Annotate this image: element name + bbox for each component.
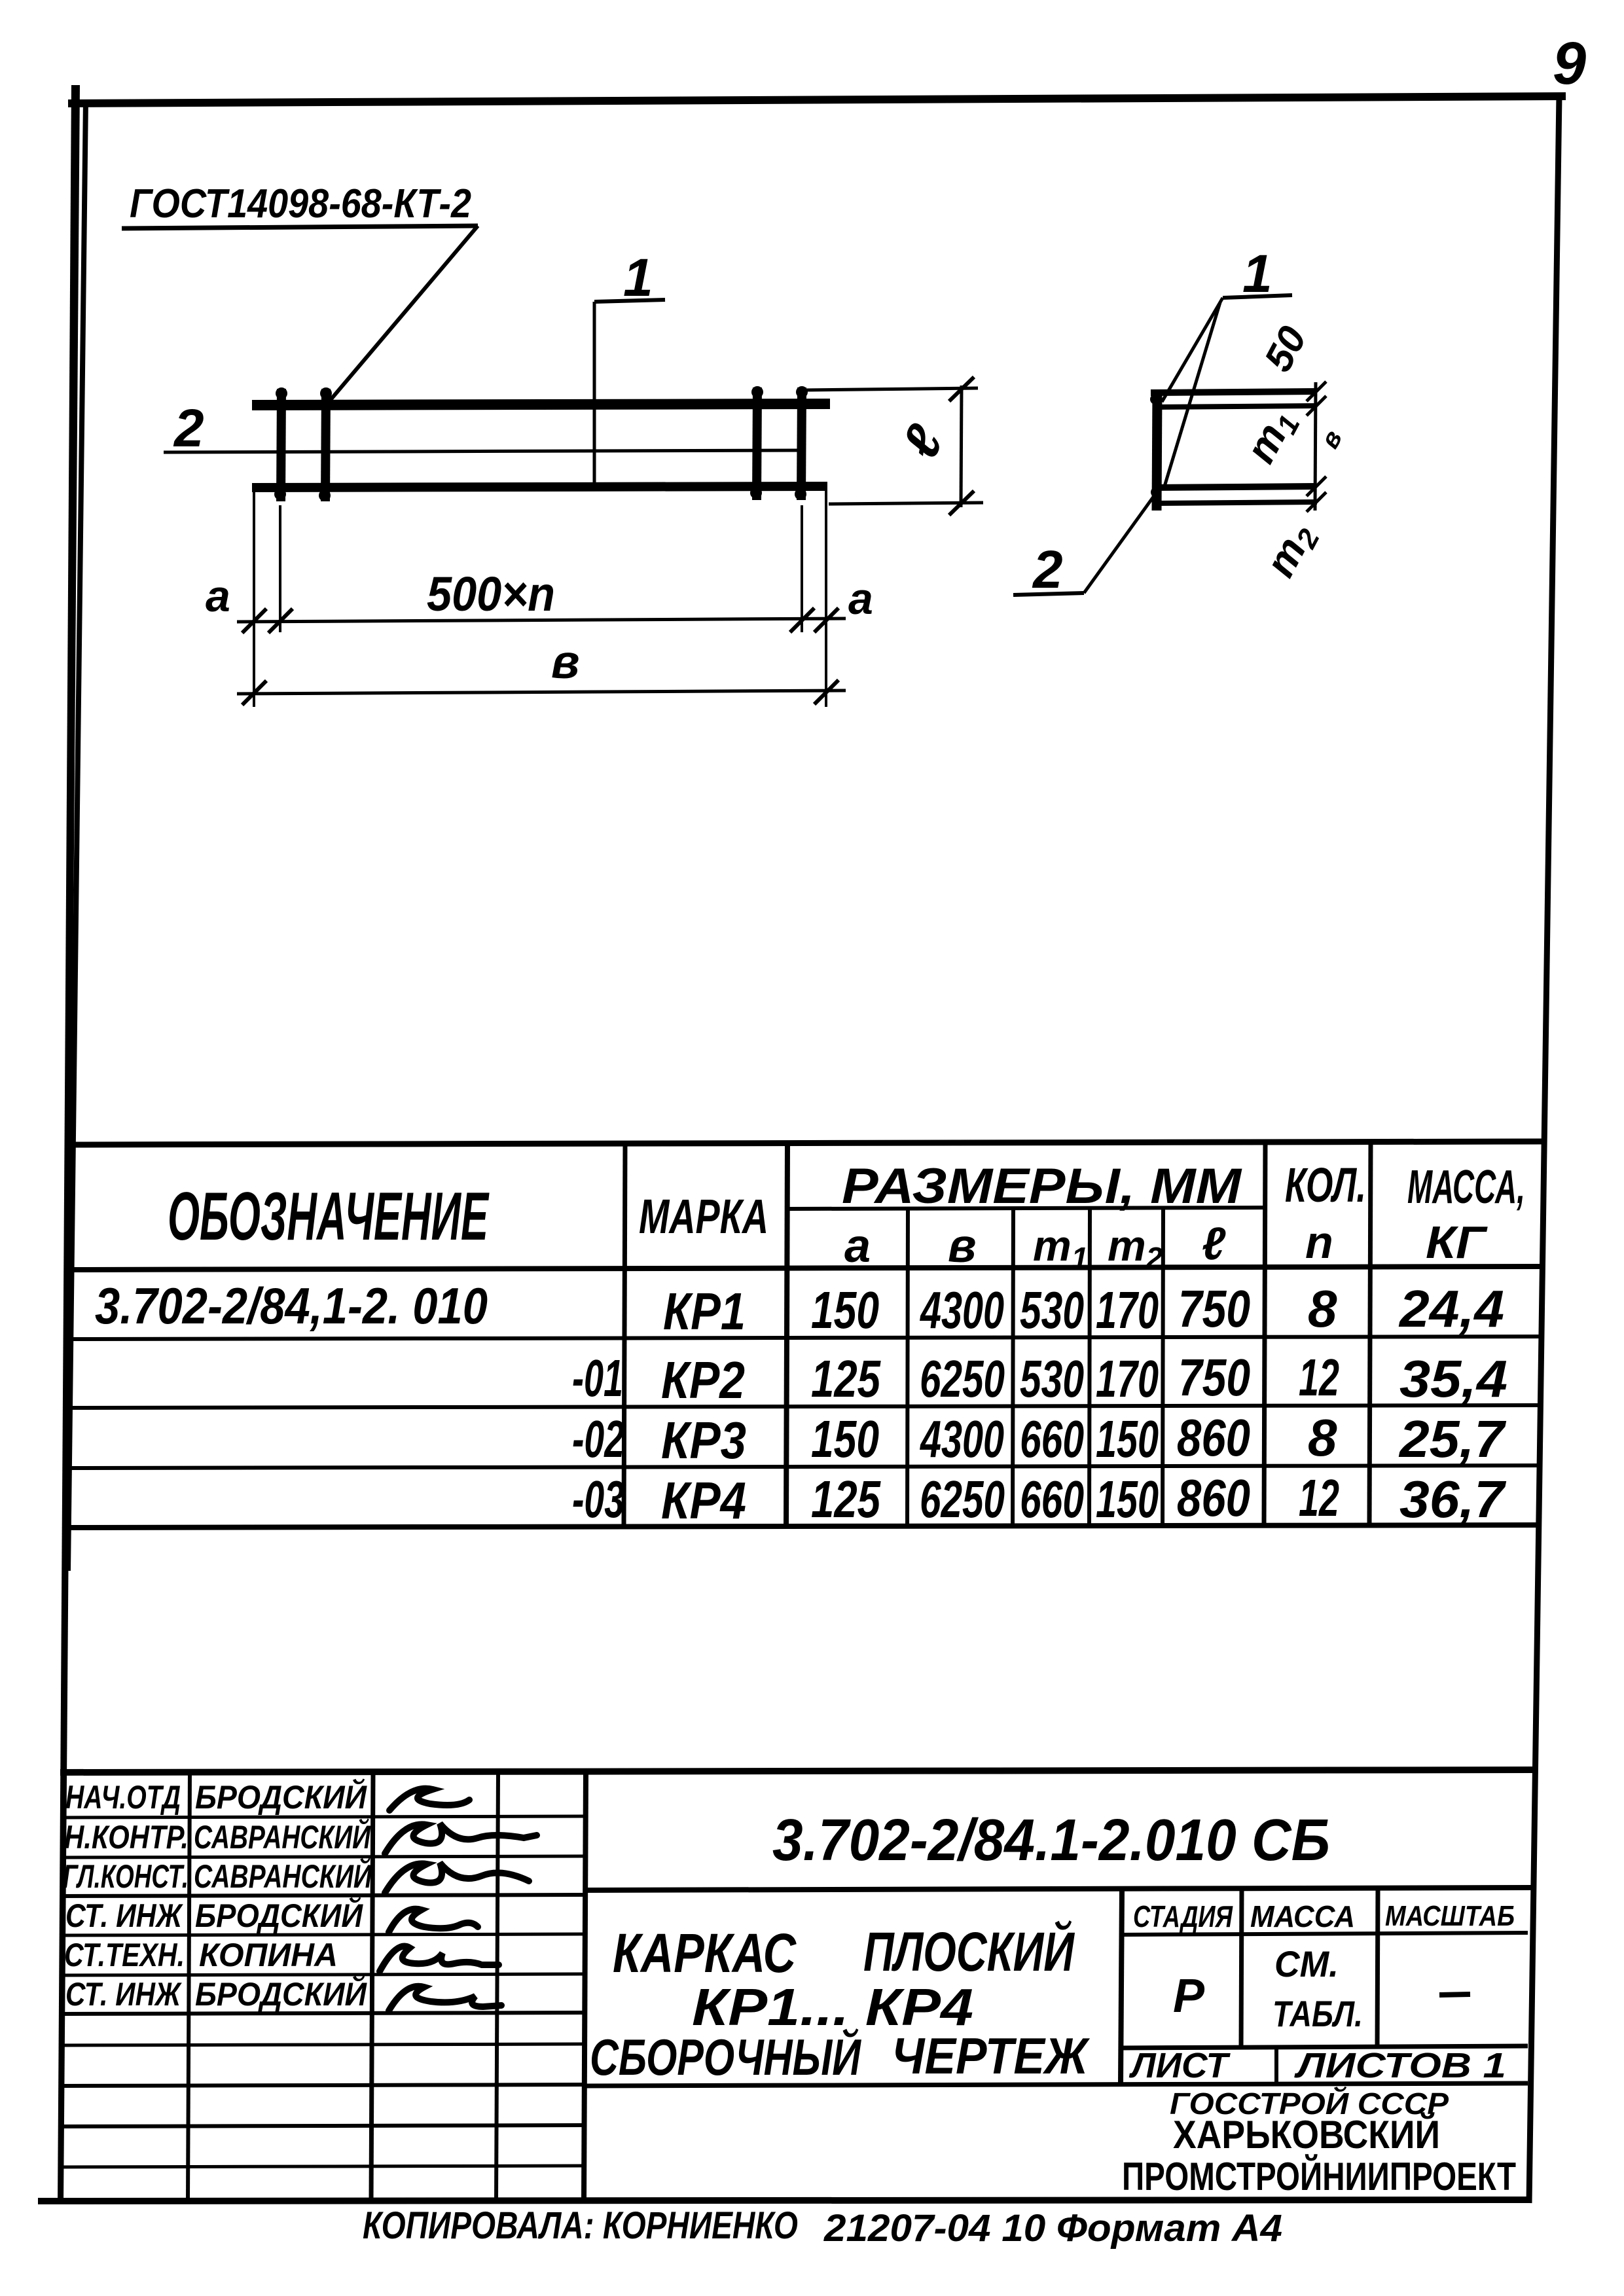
- section leader 2: [1013, 490, 1159, 600]
- svg-text:8: 8: [1308, 1280, 1337, 1338]
- middle thin wire / leader 2 line: [164, 450, 804, 452]
- svg-text:4300: 4300: [920, 1410, 1004, 1468]
- col line m1/m2: [1089, 1208, 1090, 1526]
- dim l main: [804, 377, 983, 515]
- svg-text:в: в: [551, 636, 580, 689]
- svg-text:ТАБЛ.: ТАБЛ.: [1272, 1993, 1363, 2034]
- svg-text:НАЧ.ОТД: НАЧ.ОТД: [65, 1779, 181, 1816]
- border left: [58, 85, 80, 2203]
- svg-text:21207-04 10 Формат А4: 21207-04 10 Формат А4: [823, 2207, 1282, 2250]
- svg-text:в: в: [948, 1220, 977, 1272]
- svg-text:150: 150: [1096, 1470, 1159, 1528]
- svg-text:860: 860: [1177, 1408, 1250, 1467]
- svg-text:КГ: КГ: [1426, 1217, 1488, 1268]
- svg-text:МАРКА: МАРКА: [639, 1189, 768, 1244]
- svg-text:БРОДСКИЙ: БРОДСКИЙ: [195, 1778, 367, 1816]
- svg-text:-02: -02: [572, 1410, 624, 1468]
- border top: [68, 96, 1566, 103]
- col line m2/l: [1163, 1208, 1163, 1526]
- svg-text:530: 530: [1020, 1281, 1084, 1339]
- svg-text:750: 750: [1178, 1280, 1250, 1338]
- svg-text:КР2: КР2: [661, 1351, 745, 1409]
- section cross bar: [1157, 391, 1157, 511]
- section bar1 top edge: [1151, 391, 1317, 393]
- table row line 1: [69, 1336, 1540, 1339]
- svg-text:КР1: КР1: [663, 1282, 746, 1340]
- svg-text:9: 9: [1553, 30, 1586, 97]
- svg-text:35,4: 35,4: [1399, 1350, 1507, 1408]
- svg-text:150: 150: [811, 1281, 879, 1339]
- table bottom: [68, 1525, 1538, 1528]
- TITLEBLOCK: [60, 1770, 1533, 2200]
- svg-text:СТАДИЯ: СТАДИЯ: [1133, 1899, 1233, 1933]
- svg-text:660: 660: [1020, 1470, 1084, 1528]
- svg-text:a: a: [848, 574, 873, 624]
- svg-text:КР4: КР4: [661, 1471, 746, 1530]
- svg-text:БРОДСКИЙ: БРОДСКИЙ: [195, 1897, 363, 1934]
- SECTION_VIEW: [1150, 382, 1326, 512]
- stadia values bottom: [1121, 2046, 1528, 2048]
- leader 1 main: [594, 248, 665, 484]
- svg-text:КОПИРОВАЛА: КОРНИЕНКО: КОПИРОВАЛА: КОРНИЕНКО: [363, 2204, 798, 2247]
- svg-text:-01: -01: [572, 1349, 623, 1407]
- table header split: [787, 1208, 1265, 1209]
- MAIN_VIEW: [164, 386, 830, 501]
- svg-text:ЛИСТ: ЛИСТ: [1128, 2046, 1231, 2085]
- svg-text:25,7: 25,7: [1398, 1410, 1507, 1468]
- svg-text:КР3: КР3: [661, 1411, 746, 1469]
- GOST_LABEL: [122, 181, 478, 401]
- svg-text:ГОСТ14098-68-КТ-2: ГОСТ14098-68-КТ-2: [130, 181, 471, 226]
- col line kol/massa: [1369, 1144, 1371, 1526]
- svg-text:МАССА,: МАССА,: [1407, 1161, 1525, 1213]
- border right: [1529, 96, 1559, 2203]
- svg-text:a: a: [206, 571, 230, 621]
- signatures: [380, 1789, 537, 2011]
- svg-text:СБОРОЧНЫЙ: СБОРОЧНЫЙ: [590, 2028, 861, 2086]
- svg-text:170: 170: [1096, 1350, 1159, 1408]
- svg-text:ПРОМСТРОЙНИИПРОЕКТ: ПРОМСТРОЙНИИПРОЕКТ: [1122, 2155, 1516, 2198]
- table header bottom: [69, 1266, 1542, 1270]
- note leader: [330, 226, 478, 401]
- svg-text:СМ.: СМ.: [1274, 1943, 1339, 1984]
- col line oboznachenie/marka: [624, 1144, 625, 1526]
- longitudinal bar bottom: [252, 486, 827, 488]
- ext line a left: [279, 505, 281, 632]
- svg-text:МАСШТАБ: МАСШТАБ: [1385, 1900, 1515, 1932]
- border bottom: [38, 2200, 1532, 2201]
- svg-text:МАССА: МАССА: [1250, 1899, 1355, 1933]
- svg-text:a: a: [844, 1220, 871, 1272]
- svg-text:12: 12: [1299, 1469, 1339, 1527]
- titleblock top: [60, 1770, 1532, 1772]
- svg-text:125: 125: [811, 1470, 881, 1528]
- svg-text:Р: Р: [1173, 1970, 1205, 2022]
- svg-text:ГЛ.КОНСТ.: ГЛ.КОНСТ.: [63, 1858, 189, 1895]
- ext line a right: [801, 505, 803, 632]
- section dim line: [1315, 382, 1316, 511]
- svg-text:6250: 6250: [920, 1350, 1005, 1408]
- svg-text:КОЛ.: КОЛ.: [1285, 1158, 1366, 1212]
- svg-text:2: 2: [173, 399, 204, 458]
- cross bar 2 (right 1): [750, 386, 763, 500]
- svg-text:СТ. ИНЖ: СТ. ИНЖ: [65, 1897, 183, 1934]
- cross bar 2 (left 2): [319, 387, 332, 501]
- section bar2 top edge: [1153, 486, 1316, 488]
- section bar1 bottom edge: [1155, 406, 1316, 407]
- svg-text:860: 860: [1177, 1469, 1250, 1527]
- svg-text:3.702-2/84.1-2.010 СБ: 3.702-2/84.1-2.010 СБ: [772, 1808, 1330, 1873]
- svg-text:РАЗМЕРЫ, ММ: РАЗМЕРЫ, ММ: [842, 1158, 1242, 1214]
- name table col lines: [188, 1771, 190, 2200]
- TABLE: [68, 1141, 1542, 1528]
- svg-text:ХАРЬКОВСКИЙ: ХАРЬКОВСКИЙ: [1173, 2113, 1440, 2157]
- row 2: [572, 1348, 1507, 1409]
- svg-text:150: 150: [1096, 1410, 1159, 1468]
- table top: [70, 1141, 1542, 1145]
- svg-text:СТ.ТЕХН.: СТ.ТЕХН.: [64, 1937, 185, 1973]
- svg-text:БРОДСКИЙ: БРОДСКИЙ: [195, 1975, 367, 2013]
- name table row lines: [61, 1816, 585, 1818]
- svg-text:750: 750: [1178, 1348, 1250, 1407]
- longitudinal bar top: [252, 404, 830, 405]
- row 1: [95, 1277, 1504, 1340]
- title/stadia divider: [1121, 1889, 1122, 2085]
- table row line 3: [69, 1465, 1538, 1468]
- svg-text:36,7: 36,7: [1399, 1470, 1507, 1528]
- svg-text:125: 125: [811, 1350, 881, 1408]
- svg-text:КАРКАС: КАРКАС: [613, 1922, 797, 1984]
- svg-text:4300: 4300: [920, 1281, 1004, 1339]
- note underline: [122, 226, 478, 228]
- table row line 2: [69, 1405, 1539, 1408]
- stadia header bottom: [1121, 1933, 1528, 1935]
- svg-text:530: 530: [1020, 1350, 1084, 1408]
- svg-text:ПЛОСКИЙ: ПЛОСКИЙ: [863, 1920, 1075, 1982]
- list divider: [1274, 2047, 1278, 2084]
- name rows: [63, 1778, 372, 2013]
- cross bar 2 (left 1): [274, 387, 287, 501]
- svg-text:ЛИСТОВ 1: ЛИСТОВ 1: [1293, 2046, 1506, 2085]
- cross bar 2 (right 2): [795, 386, 808, 500]
- svg-text:САВРАНСКИЙ: САВРАНСКИЙ: [194, 1818, 371, 1856]
- row 4: [572, 1469, 1507, 1530]
- dim line 500xn: [237, 619, 846, 622]
- svg-text:3.702-2/84,1-2. 010: 3.702-2/84,1-2. 010: [95, 1277, 488, 1335]
- svg-text:КОПИНА: КОПИНА: [199, 1937, 338, 1973]
- svg-text:САВРАНСКИЙ: САВРАНСКИЙ: [194, 1857, 372, 1895]
- svg-text:500×n: 500×n: [427, 567, 555, 621]
- row 3: [572, 1408, 1507, 1469]
- col line marka/razmery: [786, 1144, 787, 1526]
- section bar2 bottom edge: [1155, 502, 1317, 503]
- svg-text:n: n: [1305, 1217, 1333, 1268]
- svg-text:Н.КОНТР.: Н.КОНТР.: [64, 1819, 189, 1856]
- col line l/kol: [1264, 1144, 1265, 1526]
- list row bottom / title bottom: [586, 2083, 1528, 2086]
- svg-text:8: 8: [1308, 1408, 1337, 1467]
- svg-text:ЧЕРТЕЖ: ЧЕРТЕЖ: [892, 2027, 1090, 2085]
- stadia col lines: [1241, 1889, 1242, 2047]
- dim line b: [237, 691, 846, 694]
- svg-text:12: 12: [1299, 1348, 1339, 1407]
- svg-text:150: 150: [811, 1410, 879, 1468]
- ext line b right: [825, 491, 827, 707]
- svg-text:170: 170: [1096, 1281, 1159, 1339]
- svg-text:СТ. ИНЖ: СТ. ИНЖ: [65, 1976, 182, 2013]
- svg-text:ℓ: ℓ: [1202, 1218, 1226, 1269]
- doc number box bottom: [586, 1888, 1533, 1890]
- col line a/b: [907, 1208, 908, 1526]
- svg-text:2: 2: [1032, 540, 1063, 600]
- svg-text:24,4: 24,4: [1398, 1280, 1504, 1338]
- masshtab dash: [1439, 1994, 1470, 1995]
- ext line b left: [253, 490, 255, 707]
- svg-text:ОБОЗНАЧЕНИЕ: ОБОЗНАЧЕНИЕ: [168, 1179, 490, 1255]
- section leader 1: [1162, 244, 1292, 486]
- col line b/m1: [1013, 1208, 1013, 1526]
- svg-text:-03: -03: [572, 1470, 624, 1528]
- svg-text:660: 660: [1020, 1410, 1084, 1468]
- svg-text:6250: 6250: [920, 1470, 1005, 1528]
